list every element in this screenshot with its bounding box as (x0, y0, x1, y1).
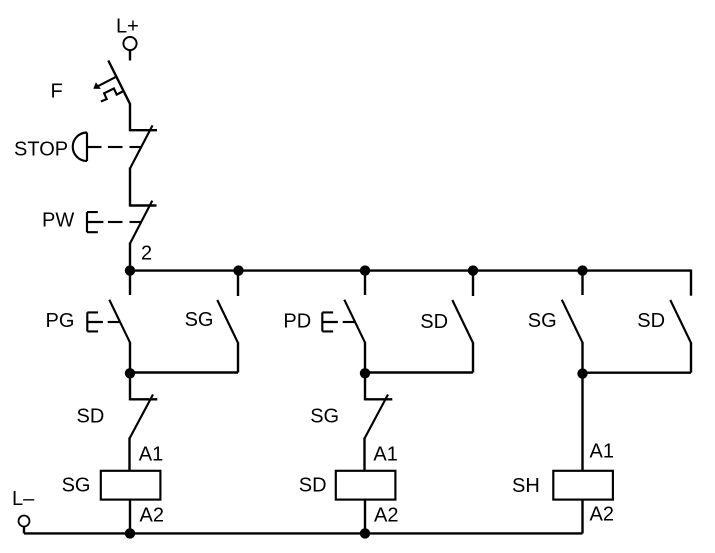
svg-text:A2: A2 (140, 505, 164, 527)
svg-text:PG: PG (46, 310, 75, 332)
svg-text:SD: SD (420, 311, 448, 333)
svg-text:SG: SG (528, 310, 557, 332)
svg-text:A2: A2 (590, 504, 614, 526)
svg-text:F: F (51, 81, 63, 103)
svg-text:SD: SD (299, 475, 327, 497)
svg-text:SG: SG (62, 475, 91, 497)
svg-text:A2: A2 (374, 505, 398, 527)
svg-text:SG: SG (185, 309, 214, 331)
svg-text:SD: SD (637, 310, 665, 332)
svg-text:L+: L+ (116, 15, 139, 37)
svg-text:A1: A1 (139, 444, 163, 466)
svg-text:A1: A1 (373, 444, 397, 466)
svg-text:PD: PD (283, 311, 311, 333)
svg-text:SH: SH (512, 475, 540, 497)
svg-text:PW: PW (42, 209, 74, 231)
svg-text:SG: SG (310, 405, 339, 427)
svg-text:A1: A1 (590, 441, 614, 463)
svg-text:2: 2 (141, 243, 152, 265)
svg-text:L–: L– (12, 488, 35, 510)
svg-text:STOP: STOP (14, 139, 68, 161)
svg-text:SD: SD (77, 406, 105, 428)
